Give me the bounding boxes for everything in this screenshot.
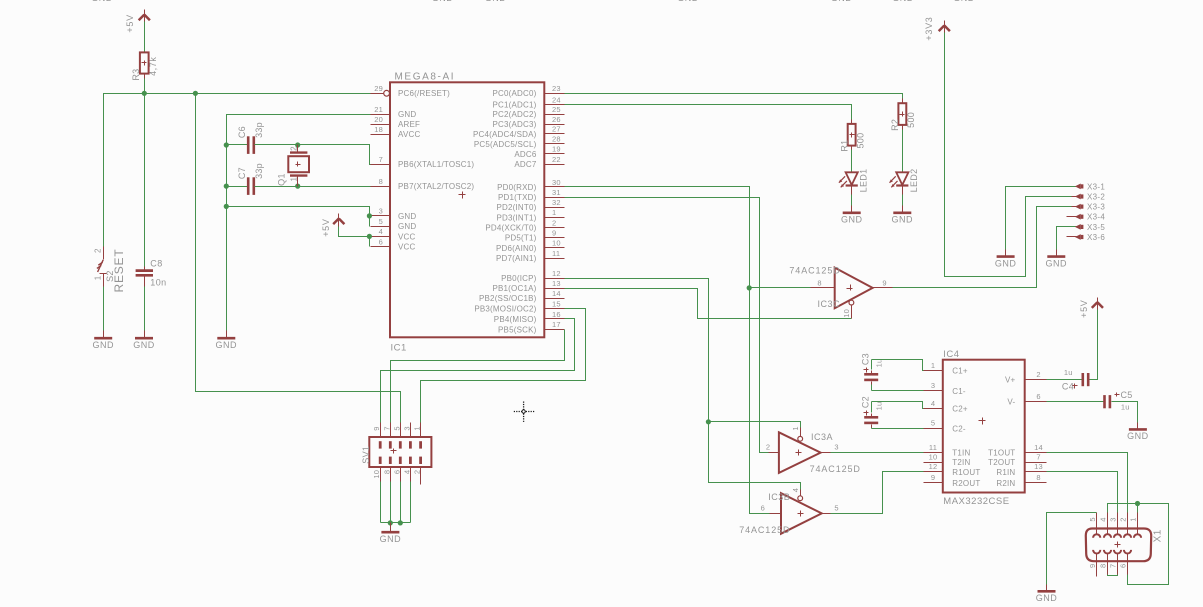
svg-text:28: 28: [552, 135, 561, 144]
svg-text:GND: GND: [831, 0, 853, 3]
svg-text:6: 6: [1119, 564, 1128, 568]
svg-text:1: 1: [1129, 517, 1138, 521]
svg-text:8: 8: [379, 177, 383, 186]
svg-text:MEGA8-AI: MEGA8-AI: [395, 72, 456, 83]
svg-text:X3-6: X3-6: [1087, 233, 1105, 242]
svg-text:7: 7: [1036, 452, 1040, 461]
svg-text:C4: C4: [1062, 381, 1074, 391]
svg-text:GND: GND: [892, 215, 914, 225]
svg-text:4: 4: [1099, 517, 1108, 521]
svg-text:14: 14: [552, 289, 561, 298]
svg-text:11: 11: [552, 249, 560, 258]
svg-text:21: 21: [374, 105, 383, 114]
svg-text:9: 9: [882, 278, 886, 287]
svg-text:C2: C2: [860, 396, 870, 408]
svg-text:33p: 33p: [254, 122, 264, 138]
svg-text:C1-: C1-: [952, 387, 966, 396]
svg-text:5: 5: [931, 419, 935, 428]
svg-text:26: 26: [552, 115, 561, 124]
svg-text:PD1(TXD): PD1(TXD): [498, 193, 537, 202]
svg-text:PB3(MOSI/OC2): PB3(MOSI/OC2): [474, 305, 536, 314]
svg-text:GND: GND: [892, 0, 914, 3]
svg-text:GND: GND: [398, 110, 416, 119]
svg-text:30: 30: [552, 178, 561, 187]
svg-text:4: 4: [931, 399, 935, 408]
svg-text:12: 12: [552, 269, 561, 278]
svg-text:8: 8: [1099, 564, 1108, 568]
svg-text:LED2: LED2: [909, 169, 919, 193]
svg-text:1u: 1u: [1121, 402, 1130, 411]
svg-text:4: 4: [402, 470, 411, 474]
svg-text:1: 1: [289, 176, 298, 181]
svg-text:C2-: C2-: [952, 424, 966, 433]
svg-text:22: 22: [552, 155, 561, 164]
svg-text:29: 29: [374, 84, 383, 93]
svg-text:9: 9: [931, 473, 935, 482]
svg-text:X3-1: X3-1: [1087, 182, 1105, 191]
svg-text:10: 10: [842, 309, 851, 318]
svg-text:18: 18: [374, 125, 383, 134]
svg-text:3: 3: [931, 381, 935, 390]
svg-text:31: 31: [552, 188, 561, 197]
svg-text:GND: GND: [91, 0, 113, 3]
svg-text:9: 9: [552, 229, 556, 238]
svg-text:T2IN: T2IN: [952, 458, 970, 467]
svg-text:GND: GND: [432, 0, 454, 3]
svg-text:PC4(ADC4/SDA): PC4(ADC4/SDA): [473, 130, 537, 139]
svg-text:5: 5: [379, 217, 383, 226]
svg-text:VCC: VCC: [398, 232, 416, 241]
svg-text:PC5(ADC5/SCL): PC5(ADC5/SCL): [474, 140, 537, 149]
svg-text:32: 32: [552, 198, 561, 207]
svg-text:9: 9: [372, 426, 381, 430]
svg-text:X3-3: X3-3: [1087, 203, 1105, 212]
svg-text:10: 10: [372, 470, 381, 479]
svg-text:10n: 10n: [150, 278, 166, 288]
svg-text:ADC7: ADC7: [514, 160, 536, 169]
svg-text:7: 7: [379, 155, 383, 164]
svg-text:2: 2: [289, 146, 298, 151]
svg-text:12: 12: [929, 462, 938, 471]
svg-text:GND: GND: [398, 222, 416, 231]
svg-text:GND: GND: [1036, 593, 1058, 603]
svg-text:V-: V-: [1007, 398, 1015, 407]
svg-text:SV1: SV1: [361, 446, 371, 464]
svg-text:3: 3: [1109, 517, 1118, 521]
svg-text:AREF: AREF: [398, 120, 420, 129]
svg-text:10: 10: [552, 239, 561, 248]
svg-text:4: 4: [379, 227, 383, 236]
svg-text:2: 2: [1119, 517, 1128, 521]
svg-text:14: 14: [1034, 443, 1043, 452]
svg-text:74AC125D: 74AC125D: [810, 464, 861, 474]
svg-text:1: 1: [791, 426, 800, 430]
svg-text:25: 25: [552, 105, 561, 114]
svg-text:23: 23: [552, 84, 561, 93]
svg-text:C6: C6: [237, 126, 247, 138]
svg-text:V+: V+: [1005, 376, 1016, 385]
svg-text:PC0(ADC0): PC0(ADC0): [492, 89, 536, 98]
svg-text:1u: 1u: [874, 402, 883, 411]
svg-text:PD3(INT1): PD3(INT1): [496, 213, 536, 222]
svg-text:PB2(SS/OC1B): PB2(SS/OC1B): [479, 294, 537, 303]
svg-text:20: 20: [374, 115, 383, 124]
svg-text:PB7(XTAL2/TOSC2): PB7(XTAL2/TOSC2): [398, 182, 474, 191]
svg-text:8: 8: [382, 470, 391, 474]
svg-text:10: 10: [929, 452, 938, 461]
svg-text:IC3C: IC3C: [818, 299, 841, 309]
svg-text:PB0(ICP): PB0(ICP): [501, 274, 537, 283]
svg-text:6: 6: [379, 237, 383, 246]
svg-text:16: 16: [552, 310, 561, 319]
svg-text:5: 5: [834, 504, 838, 513]
svg-text:6: 6: [1036, 392, 1040, 401]
svg-text:2: 2: [413, 470, 422, 474]
svg-text:PD7(AIN1): PD7(AIN1): [496, 254, 537, 263]
svg-text:GND: GND: [841, 215, 863, 225]
svg-text:19: 19: [552, 145, 561, 154]
svg-text:T2OUT: T2OUT: [988, 458, 1015, 467]
svg-text:+3V3: +3V3: [924, 17, 934, 41]
svg-text:PD6(AIN0): PD6(AIN0): [496, 244, 537, 253]
svg-text:3: 3: [402, 426, 411, 430]
svg-text:8: 8: [1036, 473, 1040, 482]
svg-text:GND: GND: [995, 258, 1017, 268]
svg-text:PB4(MISO): PB4(MISO): [494, 315, 537, 324]
svg-text:2: 2: [552, 218, 556, 227]
svg-text:PC6(/RESET): PC6(/RESET): [398, 89, 450, 98]
svg-text:74AC125D: 74AC125D: [789, 266, 840, 276]
svg-text:C8: C8: [150, 259, 162, 269]
svg-text:13: 13: [1034, 462, 1043, 471]
svg-text:GND: GND: [380, 534, 402, 544]
svg-text:2: 2: [766, 443, 770, 452]
svg-text:LED1: LED1: [859, 169, 869, 193]
svg-text:X3-2: X3-2: [1087, 193, 1105, 202]
svg-text:PD0(RXD): PD0(RXD): [497, 183, 537, 192]
svg-text:4: 4: [791, 488, 800, 492]
svg-text:GND: GND: [677, 0, 699, 3]
svg-text:VCC: VCC: [398, 243, 416, 252]
svg-text:GND: GND: [1046, 258, 1068, 268]
svg-text:IC3A: IC3A: [811, 432, 833, 442]
svg-text:3: 3: [834, 443, 838, 452]
svg-text:PB1(OC1A): PB1(OC1A): [492, 284, 536, 293]
svg-text:+5V: +5V: [321, 218, 331, 236]
svg-text:74AC125D: 74AC125D: [739, 525, 790, 535]
svg-text:X3-4: X3-4: [1087, 213, 1105, 222]
svg-text:GND: GND: [92, 340, 114, 350]
svg-text:R2OUT: R2OUT: [952, 479, 980, 488]
svg-text:9: 9: [1088, 564, 1097, 568]
svg-text:500: 500: [906, 112, 916, 128]
svg-text:5: 5: [392, 426, 401, 430]
svg-text:R3: R3: [131, 69, 141, 81]
svg-text:ADC6: ADC6: [514, 150, 536, 159]
svg-text:GND: GND: [953, 0, 975, 3]
svg-text:1u: 1u: [1064, 368, 1073, 377]
svg-text:R1: R1: [839, 140, 849, 152]
svg-text:1: 1: [413, 426, 422, 430]
svg-text:15: 15: [552, 300, 561, 309]
svg-text:GND: GND: [133, 340, 155, 350]
svg-text:8: 8: [817, 278, 821, 287]
svg-text:2: 2: [1036, 370, 1040, 379]
svg-text:7: 7: [1109, 564, 1118, 568]
svg-text:6: 6: [392, 470, 401, 474]
svg-text:5: 5: [1088, 517, 1097, 521]
svg-text:PC3(ADC3): PC3(ADC3): [492, 120, 536, 129]
svg-text:PC1(ADC1): PC1(ADC1): [492, 100, 536, 109]
svg-text:T1OUT: T1OUT: [988, 449, 1015, 458]
svg-text:4,7k: 4,7k: [148, 57, 158, 76]
svg-text:R1IN: R1IN: [996, 468, 1015, 477]
svg-text:PB6(XTAL1/TOSC1): PB6(XTAL1/TOSC1): [398, 160, 474, 169]
svg-text:1: 1: [94, 275, 103, 280]
svg-text:X3-5: X3-5: [1087, 223, 1105, 232]
svg-text:R1OUT: R1OUT: [952, 468, 980, 477]
svg-text:GND: GND: [216, 340, 238, 350]
svg-text:13: 13: [552, 279, 561, 288]
svg-text:7: 7: [382, 426, 391, 430]
svg-text:11: 11: [929, 443, 937, 452]
svg-text:GND: GND: [398, 212, 416, 221]
svg-text:C3: C3: [860, 353, 870, 365]
svg-text:IC3B: IC3B: [768, 492, 790, 502]
svg-text:MAX3232CSE: MAX3232CSE: [943, 496, 1009, 507]
svg-text:R2IN: R2IN: [996, 479, 1015, 488]
svg-text:27: 27: [552, 125, 561, 134]
svg-text:500: 500: [855, 133, 865, 149]
svg-text:RESET: RESET: [112, 249, 126, 293]
svg-text:6: 6: [761, 504, 765, 513]
svg-text:17: 17: [552, 320, 561, 329]
svg-text:+5V: +5V: [125, 14, 135, 32]
svg-text:3: 3: [379, 207, 383, 216]
svg-text:R2: R2: [890, 119, 900, 131]
svg-text:PD2(INT0): PD2(INT0): [496, 203, 536, 212]
svg-text:Q1: Q1: [276, 173, 286, 186]
svg-text:T1IN: T1IN: [952, 449, 970, 458]
svg-text:C7: C7: [237, 167, 247, 179]
svg-text:1: 1: [931, 361, 935, 370]
svg-text:IC4: IC4: [943, 349, 959, 360]
svg-text:GND: GND: [485, 0, 507, 3]
svg-text:+5V: +5V: [1079, 300, 1089, 318]
svg-text:C5: C5: [1121, 390, 1133, 400]
svg-text:IC1: IC1: [391, 343, 407, 354]
svg-text:AVCC: AVCC: [398, 130, 420, 139]
svg-text:1: 1: [552, 208, 556, 217]
svg-text:PB5(SCK): PB5(SCK): [498, 325, 537, 334]
svg-text:PD4(XCK/T0): PD4(XCK/T0): [485, 224, 536, 233]
svg-text:2: 2: [94, 248, 103, 253]
svg-text:PC2(ADC2): PC2(ADC2): [492, 110, 536, 119]
svg-text:33p: 33p: [254, 163, 264, 179]
svg-text:C2+: C2+: [952, 405, 968, 414]
svg-text:C1+: C1+: [952, 367, 968, 376]
svg-text:PD5(T1): PD5(T1): [505, 234, 537, 243]
svg-text:X1: X1: [1152, 529, 1163, 542]
svg-text:GND: GND: [1127, 431, 1149, 441]
svg-text:24: 24: [552, 95, 561, 104]
